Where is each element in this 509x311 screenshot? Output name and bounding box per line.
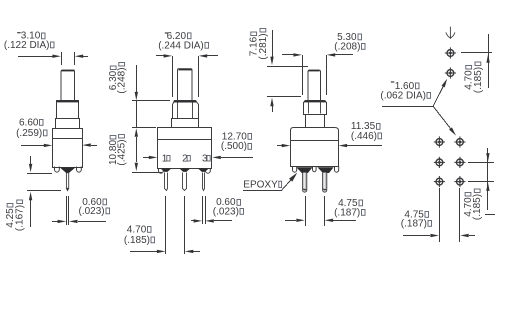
dim 5.30 right leader [335, 54, 353, 56]
dim 4.25 down arrowhead [29, 164, 32, 173]
dim 5.30 tofu [358, 34, 362, 40]
collar lower [172, 119, 199, 128]
dim .023 tofu box [106, 208, 110, 214]
svg-text:(.185): (.185) [473, 67, 484, 93]
bottom dim 4.70 down arrowhead [486, 153, 489, 162]
collar upper with chamfer [173, 101, 199, 119]
dim 4.25 upper leg [30, 156, 32, 164]
svg-text:(.500): (.500) [221, 141, 247, 152]
plunger outline f3 [308, 70, 321, 100]
dim 4.75 extension line left [305, 196, 307, 226]
hole top pattern row1 [445, 47, 456, 58]
bottom dim 4.70 up arrowhead [486, 182, 489, 191]
dim 4.25 up arrowhead [29, 192, 32, 201]
dim 6.20 diameter mark [165, 32, 168, 33]
bottom dim 4.75 left arrowhead [430, 234, 439, 237]
leader diagonal down [433, 106, 450, 128]
dim .122 tofu box [51, 42, 55, 48]
pin right f3 [323, 173, 327, 193]
svg-text:(.187): (.187) [401, 219, 427, 230]
top dim 4.70 line [488, 34, 490, 88]
collar upper f3 [304, 101, 327, 115]
extension line plunger top [267, 66, 308, 68]
svg-text:(.244 DIA): (.244 DIA) [158, 40, 204, 51]
body parting line [157, 139, 212, 141]
plunger top thick edge [62, 70, 75, 72]
EPOXY leader arrowhead [289, 173, 297, 182]
dim 6.20 left arrowhead [164, 54, 173, 57]
body outline [158, 128, 212, 169]
bottom dim 4.70 line [487, 148, 489, 210]
dim 3.10 text diameter mark [17, 32, 20, 33]
body foot right [77, 167, 82, 173]
hole bottom pattern r1c2 [454, 136, 465, 147]
dim 3.10 right arrowhead [75, 55, 84, 58]
svg-text:(.062 DIA): (.062 DIA) [380, 91, 426, 102]
leader diagonal up [433, 87, 443, 107]
dim .023 tofu fig2 [240, 209, 244, 215]
bottom dim .185 rotated text [472, 189, 483, 220]
dim .259 tofu box [44, 130, 48, 136]
dim 11.35 right arrowhead [339, 144, 348, 147]
collar upper top thick edge f2 [174, 101, 197, 103]
dim 10.80 rotated text [108, 136, 119, 166]
dim 0.60 tofu box [103, 199, 107, 205]
bottom dim 4.75 right arrowhead [460, 234, 469, 237]
dim 0.60 left arrowhead [58, 220, 67, 223]
dim 10.80 up arrowhead [135, 128, 138, 137]
dim 0.60 right arrowhead [69, 220, 78, 223]
dim 4.25 extension line top [27, 173, 52, 175]
pin3 extension line left [202, 196, 204, 224]
dim 4.25 extension line bottom [27, 190, 61, 192]
EPOXY tofu [279, 181, 282, 187]
dim 4.25 rotated text [5, 204, 16, 228]
plunger sides inside collar [178, 101, 193, 119]
dim 7.16 rotated text [249, 32, 260, 56]
pin left f3 bottom cap [303, 188, 307, 190]
plunger sides inside collar f3 [309, 101, 321, 114]
body foot right [206, 169, 211, 174]
pin1 extension line [165, 196, 167, 254]
figure 3 : side view switch with epoxy seal [249, 29, 382, 227]
body outline [53, 129, 83, 168]
dim 3.10 left arrowhead [52, 55, 61, 58]
dim 3.10 extension tick left [61, 52, 63, 65]
svg-text:4.70: 4.70 [127, 224, 147, 235]
epoxy cone pin2 [179, 168, 190, 172]
epoxy cone pin3 [198, 168, 209, 172]
dim 3.10 extension tick right [74, 52, 76, 65]
dim 6.30 down arrowhead [135, 92, 138, 101]
pin extension line right [68, 196, 70, 225]
pin 1 [66, 173, 68, 191]
pin left f3 [303, 173, 307, 193]
pin 3 [203, 173, 205, 191]
dim .187 tofu f3 [362, 210, 366, 216]
svg-text:(.185): (.185) [124, 235, 150, 246]
dim 6.60 right arrowhead [82, 143, 91, 146]
dim 4.75 left leader [285, 220, 296, 222]
dim 0.60 tofu fig2 [237, 200, 241, 206]
svg-text:(.187): (.187) [334, 208, 360, 219]
plunger outline [178, 69, 193, 101]
epoxy seal left pin [296, 167, 312, 173]
collar upper [57, 101, 79, 119]
dim 7.16 down arrowhead [270, 57, 273, 66]
plunger top thick edge f3 [309, 70, 320, 72]
figure 2 : front view switch with 3 pins [108, 31, 297, 254]
svg-text:EPOXY: EPOXY [243, 179, 278, 190]
dim 10.80 down arrowhead [135, 163, 138, 172]
pin 2 [183, 173, 187, 191]
dim 4.75 right arrowhead [325, 219, 334, 222]
dim .244 tofu box [205, 42, 209, 48]
svg-text:(.185): (.185) [472, 194, 483, 220]
dim .500 tofu [248, 144, 252, 150]
dim 7.16 upper leg [272, 30, 274, 57]
pin right f3 fill [323, 173, 327, 193]
extension line body top [132, 127, 156, 129]
dim 4.75 extension line right [324, 196, 326, 226]
top dim 4.70 up arrowhead [486, 54, 489, 63]
extension line collar top [132, 100, 170, 102]
dim 5.30 extension line left [302, 55, 304, 95]
dim 0.60 right leader [78, 221, 106, 223]
dim 4.75 tofu f3 [359, 200, 363, 206]
hole bottom pattern r1c1 [434, 136, 445, 147]
orientation down arrow [446, 27, 455, 39]
dim .446 tofu [378, 133, 382, 139]
body outline f3 [291, 128, 339, 167]
dim 12.70 right leader [221, 157, 253, 159]
pin label 1 tofu [167, 156, 170, 162]
dim 6.60 right leader [91, 145, 97, 147]
EPOXY leader diagonal [282, 180, 291, 190]
dim 6.30 leg [136, 65, 138, 92]
svg-text:(.446): (.446) [351, 131, 377, 142]
dim 6.60 tofu box [40, 120, 44, 126]
pin2 extension line [184, 196, 186, 254]
dim .208 tofu [362, 44, 366, 50]
leader up arrowhead [442, 79, 448, 88]
body parting line [52, 138, 82, 140]
hole bottom pattern r3c2 [454, 176, 465, 187]
body foot right f3 [335, 167, 339, 173]
pin left f3 highlight [303, 173, 305, 190]
dim 3.10 left leader line [18, 56, 53, 58]
dim 7.16 lower leg [272, 106, 274, 112]
hole bottom pattern r2c1 [434, 157, 445, 168]
dim 4.70 right leader [193, 251, 200, 253]
dim 6.20 extension line right [198, 56, 200, 97]
collar upper top thick edge [57, 101, 79, 103]
dim 12.70 tofu [248, 134, 252, 140]
dim 1.60 diameter mark [391, 81, 394, 82]
collar lower f3 [306, 115, 325, 128]
bottom dim 4.75 left leader [403, 235, 430, 237]
dim 6.30 rotated text [108, 66, 119, 90]
pin label 2 tofu [187, 156, 190, 162]
dim .425 rotated text [116, 135, 127, 166]
dim 4.75 left arrowhead [296, 219, 305, 222]
pin 1 tip fill [67, 188, 69, 191]
dim 11.35 right leader [347, 145, 382, 147]
hole bottom pattern r3c1 [434, 176, 445, 187]
dim 5.30 left leader [282, 54, 294, 56]
bottom dim 4.75 right leader [469, 235, 475, 237]
EPOXY underline [243, 190, 282, 192]
dim 4.70 left leader [130, 251, 157, 253]
dim 11.35 tofu [377, 124, 381, 130]
collar upper top thick edge f3 [304, 101, 326, 103]
dim 0.60 right arrowhead [205, 219, 214, 222]
dim 0.60 left leader [52, 221, 58, 223]
svg-text:(.023): (.023) [213, 207, 239, 218]
dim 10.80 leg [136, 137, 138, 162]
bottom 4.75 extension line left [439, 188, 441, 242]
leader horizontal [382, 106, 433, 108]
dim 5.30 left arrowhead [293, 53, 302, 56]
dim 6.60 left arrowhead [44, 144, 53, 147]
epoxy cone pin1 [160, 168, 171, 172]
dim 12.70 left leader [143, 157, 149, 159]
svg-text:(.259): (.259) [16, 128, 42, 139]
top dim .185 rotated text [473, 62, 484, 93]
dim 4.25 lower leg [30, 200, 32, 227]
svg-text:(.122 DIA): (.122 DIA) [4, 40, 50, 51]
svg-text:(.248): (.248) [117, 67, 128, 93]
dim .167 rotated text [15, 200, 26, 231]
bottom 4.75 extension line right [459, 188, 461, 242]
dim 6.20 right leader [207, 55, 218, 57]
figure 1 : side view switch [4, 31, 110, 231]
svg-text:(.208): (.208) [334, 42, 360, 53]
dim 4.70 tofu [148, 227, 152, 233]
dim 4.70 left arrowhead [157, 250, 166, 253]
dim .281 rotated text [258, 29, 269, 60]
dim 1.60 tofu [416, 83, 420, 89]
dim 6.20 extension line left [172, 56, 174, 97]
dim 5.30 extension line right [326, 55, 328, 95]
pin right f3 highlight [323, 173, 325, 190]
pin left f3 fill [303, 173, 307, 193]
bottom tick row3 [468, 181, 494, 183]
body parting line f3 [290, 140, 338, 142]
dim 11.35 left arrowhead [282, 144, 291, 147]
dim .248 rotated text [117, 63, 128, 94]
dim 0.60 left leader [191, 220, 194, 222]
PCB land patterns [380, 27, 495, 242]
collar lower [56, 119, 80, 129]
bottom tick row2 [468, 162, 494, 164]
dim 3.10 right leader line [83, 56, 88, 58]
extension line feet bottom [132, 172, 162, 174]
dim 7.16 up arrowhead [270, 98, 273, 107]
pin extension line left [66, 196, 68, 225]
dim 6.20 left leader [156, 55, 164, 57]
dim 5.30 right arrowhead [327, 53, 336, 56]
top dim 4.70 rotated text [464, 66, 475, 90]
body foot left [55, 167, 60, 173]
dim 4.70 right arrowhead [185, 250, 194, 253]
hole bottom pattern r2c2 [454, 157, 465, 168]
dim 10.80 middle leg [136, 101, 138, 128]
leader down arrowhead [449, 127, 456, 135]
dim .062 tofu [427, 93, 431, 99]
bottom dim 4.75 tofu [425, 212, 429, 218]
extension line collar top f3 [267, 96, 301, 98]
dim 12.70 right arrowhead [212, 156, 221, 159]
epoxy seal right pin [317, 167, 333, 173]
dim 4.75 right leader [333, 220, 356, 222]
dim 6.60 left leader [21, 145, 44, 147]
pin 1 [165, 173, 168, 191]
dim .185 tofu [151, 237, 155, 243]
svg-text:(.425): (.425) [116, 139, 127, 165]
top pattern tick line row1 [461, 52, 492, 54]
plunger outline [61, 70, 75, 100]
dim 3.10 tofu box [42, 33, 46, 39]
pin right f3 bottom cap [323, 188, 327, 190]
dim 6.20 tofu box [188, 33, 192, 39]
dim 0.60 left arrowhead [194, 219, 203, 222]
pin3 extension line right [205, 196, 207, 224]
body foot left f3 [293, 167, 297, 173]
dim 11.35 left leader [277, 145, 282, 147]
bottom dim 4.70 rotated text [463, 193, 474, 217]
svg-text:(.023): (.023) [79, 206, 105, 217]
dim 6.20 right arrowhead [199, 54, 208, 57]
body foot middle f3 [313, 167, 317, 172]
bottom dim end tick [485, 214, 495, 216]
hole top pattern row2 [445, 67, 456, 78]
body foot left [159, 169, 164, 174]
dim 12.70 left arrowhead [149, 156, 158, 159]
epoxy cone fill [60, 167, 76, 173]
svg-text:(.281): (.281) [258, 33, 269, 59]
bottom dim .187 tofu [428, 221, 432, 227]
svg-text:(.167): (.167) [15, 205, 26, 231]
plunger top thick edge [179, 69, 192, 71]
pin label 3 tofu [207, 156, 210, 162]
dim 0.60 right leader [214, 220, 232, 222]
